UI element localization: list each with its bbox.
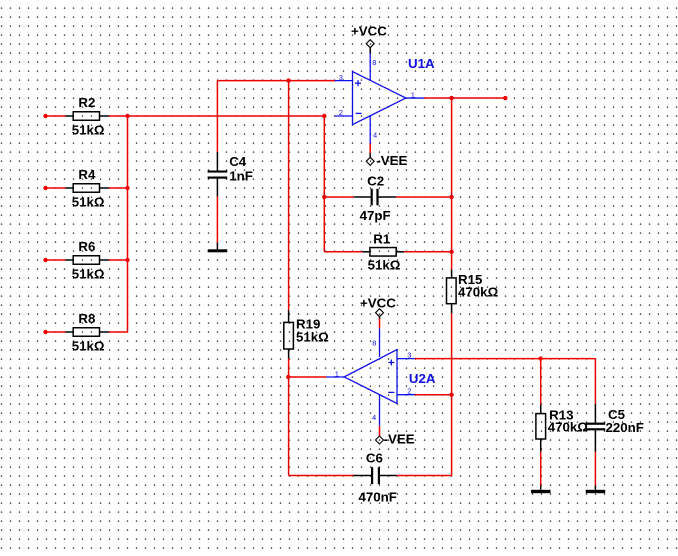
svg-text:3: 3	[339, 73, 343, 82]
svg-text:+VCC: +VCC	[360, 296, 396, 311]
svg-text:2: 2	[407, 387, 411, 396]
svg-text:51kΩ: 51kΩ	[296, 330, 329, 345]
svg-text:4: 4	[372, 413, 376, 422]
svg-text:U1A: U1A	[408, 56, 435, 71]
svg-text:1: 1	[411, 90, 415, 99]
svg-text:C6: C6	[366, 450, 383, 465]
svg-text:8: 8	[372, 339, 376, 348]
svg-text:R6: R6	[78, 239, 95, 254]
svg-text:C2: C2	[367, 174, 384, 189]
svg-text:470kΩ: 470kΩ	[548, 420, 589, 435]
svg-text:3: 3	[407, 351, 411, 360]
svg-text:51kΩ: 51kΩ	[72, 339, 105, 354]
svg-text:47pF: 47pF	[360, 208, 391, 223]
svg-text:220nF: 220nF	[606, 420, 644, 435]
svg-text:470nF: 470nF	[359, 490, 397, 505]
svg-text:51kΩ: 51kΩ	[368, 257, 401, 272]
svg-text:2: 2	[339, 108, 343, 117]
svg-text:C4: C4	[229, 154, 247, 169]
svg-text:-VEE: -VEE	[376, 153, 407, 168]
svg-text:U2A: U2A	[409, 371, 436, 386]
svg-text:R1: R1	[373, 232, 391, 247]
svg-text:51kΩ: 51kΩ	[72, 195, 105, 210]
svg-text:51kΩ: 51kΩ	[72, 267, 105, 282]
svg-text:-VEE: -VEE	[384, 431, 415, 446]
svg-text:+VCC: +VCC	[351, 24, 387, 39]
svg-text:1: 1	[335, 370, 339, 379]
svg-text:1nF: 1nF	[229, 168, 253, 183]
svg-text:R2: R2	[78, 95, 95, 110]
svg-text:51kΩ: 51kΩ	[72, 123, 105, 138]
svg-text:4: 4	[373, 130, 377, 139]
svg-text:R4: R4	[78, 167, 96, 182]
svg-text:R8: R8	[78, 311, 95, 326]
svg-text:470kΩ: 470kΩ	[458, 284, 499, 299]
svg-text:8: 8	[372, 58, 376, 67]
